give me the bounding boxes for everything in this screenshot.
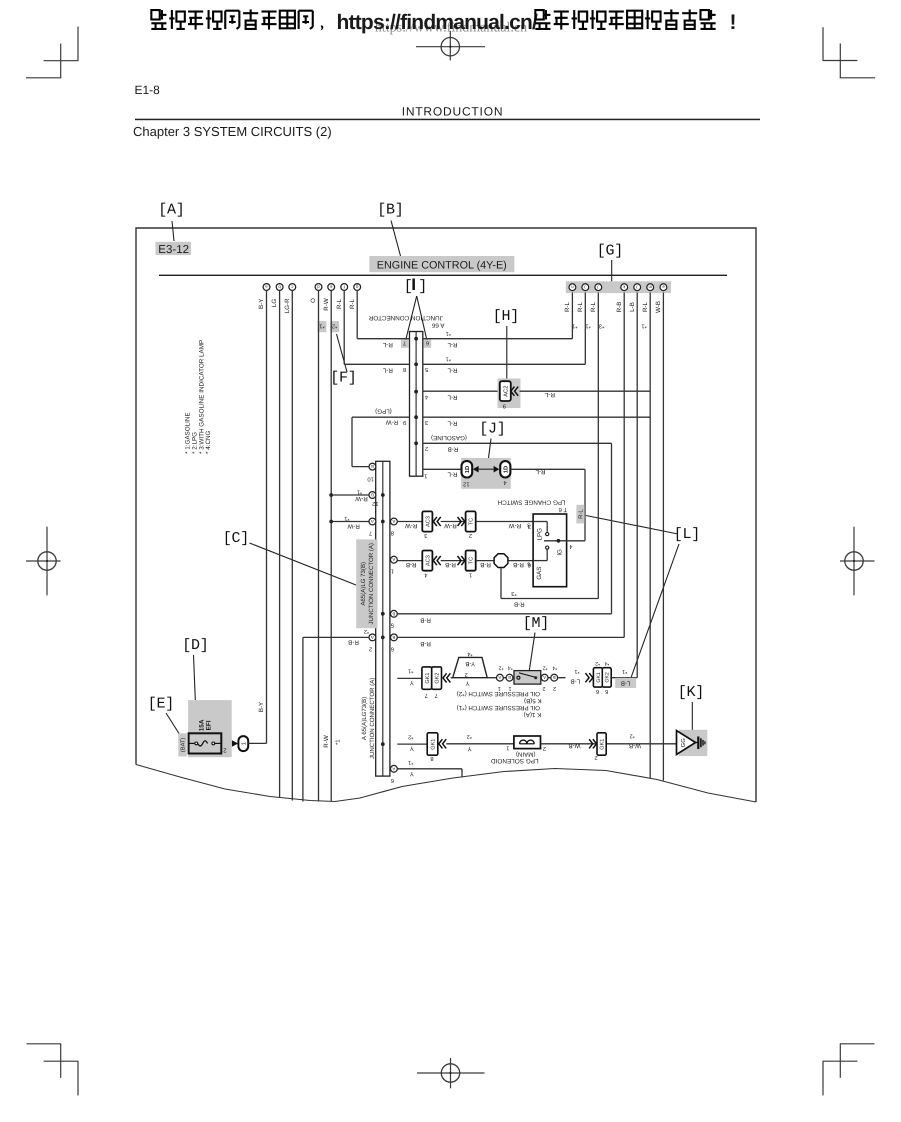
svg-text:IG: IG bbox=[557, 549, 564, 556]
svg-text:[J]: [J] bbox=[479, 421, 505, 438]
svg-text:B: B bbox=[392, 611, 395, 616]
terminal a bbox=[263, 284, 270, 291]
pointer line for [J] bbox=[489, 439, 492, 459]
svg-text:[L]: [L] bbox=[674, 526, 700, 543]
svg-text:R-W: R-W bbox=[509, 522, 522, 529]
A65 upper label gray bbox=[356, 539, 377, 628]
svg-text:R-W: R-W bbox=[355, 495, 368, 502]
connector 1D right bbox=[500, 461, 510, 477]
wire fuse to B-Y bbox=[248, 742, 266, 744]
inner top rule bbox=[159, 275, 727, 276]
svg-text:(MAIN): (MAIN) bbox=[516, 751, 536, 758]
svg-text:W-B: W-B bbox=[569, 742, 581, 749]
A65 pin 2A bbox=[369, 634, 376, 641]
svg-text:R-L: R-L bbox=[578, 509, 585, 519]
svg-text:*2: *2 bbox=[364, 628, 369, 634]
svg-text:W-B: W-B bbox=[655, 301, 662, 313]
connector GK2 bbox=[432, 667, 442, 689]
svg-text:6: 6 bbox=[605, 688, 608, 695]
svg-text:7: 7 bbox=[369, 530, 372, 536]
svg-text:GK1: GK1 bbox=[431, 739, 437, 750]
svg-text:ENGINE CONTROL (4Y-E): ENGINE CONTROL (4Y-E) bbox=[377, 260, 507, 272]
junction dot A66 bbox=[414, 337, 418, 341]
wire R-B ecu vertical bbox=[623, 293, 625, 638]
svg-text:1: 1 bbox=[506, 745, 509, 751]
wire R-B drop bbox=[302, 637, 304, 801]
svg-text:GK1: GK1 bbox=[425, 673, 431, 684]
svg-text:*1: *1 bbox=[408, 759, 413, 765]
svg-text:*1: *1 bbox=[357, 489, 362, 495]
svg-text:6: 6 bbox=[426, 340, 429, 346]
svg-text:O: O bbox=[310, 298, 317, 303]
svg-text:8: 8 bbox=[430, 755, 433, 762]
svg-text:W-B: W-B bbox=[629, 742, 641, 749]
A65 pin 12B bbox=[369, 492, 376, 499]
svg-text:L-B: L-B bbox=[621, 680, 631, 687]
wire lamp to switch pin6 bbox=[508, 560, 533, 562]
svg-text:* 4:CNG: * 4:CNG bbox=[205, 430, 212, 454]
svg-text:R-B: R-B bbox=[513, 561, 524, 568]
svg-text:3: 3 bbox=[425, 419, 428, 426]
wire R-L ecu2 vertical bbox=[584, 293, 586, 365]
terminal e bbox=[328, 284, 335, 291]
svg-text:R-L: R-L bbox=[447, 470, 458, 477]
svg-text:B-Y: B-Y bbox=[258, 299, 265, 309]
svg-text:8: 8 bbox=[391, 530, 394, 537]
svg-text:8: 8 bbox=[403, 366, 406, 373]
svg-text:6: 6 bbox=[528, 562, 531, 569]
svg-text:12: 12 bbox=[463, 480, 469, 487]
indicator lamp (octagon) bbox=[494, 554, 508, 568]
connector AC3 pin 4 bbox=[422, 551, 432, 571]
svg-text:]: ] bbox=[418, 278, 427, 295]
pointer line for [M] bbox=[529, 633, 535, 671]
svg-text:2: 2 bbox=[553, 685, 556, 691]
wire row2 to lamp bbox=[476, 560, 494, 562]
registration mark top-left bbox=[77, 27, 79, 61]
svg-text:10: 10 bbox=[367, 475, 373, 482]
svg-text:5: 5 bbox=[425, 366, 428, 372]
svg-text:4: 4 bbox=[424, 393, 428, 399]
pointer line for [C] bbox=[250, 543, 357, 585]
svg-text:3: 3 bbox=[528, 523, 531, 530]
wire R-W to 12B bbox=[331, 494, 369, 496]
connector GK1 ground side bbox=[597, 733, 606, 755]
svg-text:LPG SOLENOID: LPG SOLENOID bbox=[491, 757, 539, 764]
svg-text:*1: *1 bbox=[622, 668, 627, 674]
switch pin3 internal bbox=[533, 521, 547, 523]
svg-text:*2: *2 bbox=[408, 734, 413, 740]
tag *2 gray bbox=[330, 321, 339, 332]
svg-text:[M]: [M] bbox=[523, 615, 549, 632]
svg-text:(GASOLINE): (GASOLINE) bbox=[431, 434, 467, 441]
svg-text:L-B: L-B bbox=[629, 302, 636, 312]
svg-text:GK2: GK2 bbox=[435, 673, 441, 684]
junction dot A65 bbox=[381, 742, 385, 746]
svg-text:R-W: R-W bbox=[323, 735, 330, 748]
svg-text:R-W: R-W bbox=[386, 419, 399, 426]
pointer line for [F] bbox=[337, 334, 348, 372]
wire 6A right bbox=[397, 768, 462, 770]
junction dot A65 bbox=[381, 520, 385, 524]
svg-text:OIL PRESSURE SWITCH (*1): OIL PRESSURE SWITCH (*1) bbox=[457, 704, 540, 711]
svg-text:(LPG): (LPG) bbox=[375, 408, 392, 415]
svg-text:9: 9 bbox=[403, 419, 406, 426]
svg-text:1D: 1D bbox=[465, 466, 471, 473]
registration target bottom-center bbox=[441, 1064, 459, 1082]
tag *1 gray bbox=[318, 321, 327, 332]
svg-text:Y: Y bbox=[465, 679, 469, 686]
svg-text:GG: GG bbox=[680, 738, 687, 748]
fuse 15A EFI box bbox=[189, 733, 222, 753]
LPG solenoid coil bbox=[514, 736, 541, 749]
svg-text:m: m bbox=[648, 285, 652, 290]
wire A66 row1 left bbox=[357, 338, 409, 340]
svg-text:T 6: T 6 bbox=[558, 506, 567, 513]
ECU terminal n bbox=[569, 284, 576, 291]
pointer line for [G] bbox=[611, 260, 613, 281]
registration mark top-right bbox=[822, 27, 824, 60]
svg-text:INTRODUCTION: INTRODUCTION bbox=[402, 105, 504, 119]
svg-text:R-W: R-W bbox=[323, 298, 330, 311]
svg-text:A: A bbox=[392, 557, 395, 562]
E3-12 reference box bbox=[156, 242, 192, 255]
connector pair 1D gray panel bbox=[461, 458, 511, 489]
terminal d bbox=[315, 284, 322, 291]
svg-text:AC3: AC3 bbox=[425, 516, 431, 527]
svg-text:3: 3 bbox=[424, 532, 427, 539]
lamp bottom loop bbox=[500, 568, 502, 598]
junction dot A65 bbox=[381, 612, 385, 616]
diagram outer border with torn-edge bottom bbox=[136, 228, 756, 802]
svg-text:R-B: R-B bbox=[348, 639, 359, 646]
svg-text:B: B bbox=[508, 675, 511, 680]
pointer line for [A] bbox=[172, 221, 174, 241]
wire R-W to 7A bbox=[331, 521, 369, 523]
mating arrows bbox=[473, 466, 479, 473]
svg-text:7: 7 bbox=[403, 340, 406, 346]
svg-text:B: B bbox=[392, 635, 395, 640]
svg-text:https://findmanual.cn/: https://findmanual.cn/ bbox=[337, 11, 539, 34]
wire R-W vertical bbox=[330, 290, 332, 801]
ECU terminal e bbox=[660, 284, 667, 291]
connector GK1 bbox=[422, 667, 432, 689]
wire to pin10 bbox=[352, 466, 369, 468]
wire A65 2B to GK1 bbox=[397, 743, 427, 745]
wire solenoid to GG bbox=[541, 743, 677, 745]
svg-text:J: J bbox=[597, 285, 599, 290]
svg-text:[H]: [H] bbox=[493, 308, 519, 325]
svg-text:R-B: R-B bbox=[445, 561, 456, 568]
terminal b bbox=[276, 284, 283, 291]
wire A65 1B to GK pair bbox=[397, 677, 422, 679]
svg-text:R-B: R-B bbox=[406, 561, 417, 568]
svg-text:JUNCTION CONNECTOR (A): JUNCTION CONNECTOR (A) bbox=[369, 678, 376, 759]
svg-text:LG: LG bbox=[271, 299, 278, 307]
oil pressure sender plug (trapezoid) bbox=[453, 657, 488, 677]
connector GK1 right bbox=[593, 668, 602, 687]
wire R-L ecu3 vertical (IG feed) bbox=[597, 293, 599, 599]
terminal c bbox=[289, 284, 296, 291]
svg-text:*4: *4 bbox=[508, 665, 513, 671]
registration mark bottom-left bbox=[60, 1044, 62, 1078]
svg-text:E1-8: E1-8 bbox=[135, 83, 161, 97]
wire 1D to R-L drop bbox=[510, 468, 585, 470]
A65 pin 6A bbox=[391, 765, 398, 772]
svg-text:[K]: [K] bbox=[678, 684, 704, 701]
svg-text:AC2: AC2 bbox=[502, 386, 509, 397]
svg-text:R-B: R-B bbox=[514, 601, 525, 608]
svg-text:R-W: R-W bbox=[347, 522, 360, 529]
svg-text:Y: Y bbox=[410, 745, 414, 752]
svg-text:7: 7 bbox=[425, 692, 428, 698]
svg-text:R-L: R-L bbox=[577, 301, 584, 312]
svg-text:1: 1 bbox=[391, 568, 394, 574]
wire row y=521.5 bbox=[397, 521, 422, 523]
pin 6 gray bbox=[424, 340, 432, 348]
A65 pin 1A bbox=[391, 556, 398, 563]
svg-text:[E]: [E] bbox=[148, 696, 174, 713]
svg-text:A: A bbox=[371, 519, 374, 524]
wire to solenoid bbox=[446, 743, 514, 745]
svg-text:JUNCTION CONNECTOR: JUNCTION CONNECTOR bbox=[368, 314, 442, 321]
banner chinese headline (drawn glyphs) bbox=[151, 10, 159, 19]
svg-text:*1: *1 bbox=[641, 323, 646, 329]
ground point GG [K] bbox=[679, 730, 707, 756]
pointer lines for [L] bbox=[586, 516, 678, 535]
svg-text:[C]: [C] bbox=[223, 530, 249, 547]
pointer line for [D] bbox=[194, 655, 196, 700]
connector TC pin 1 bbox=[466, 551, 476, 571]
wire A66 row1 right bbox=[423, 338, 573, 340]
svg-text:1: 1 bbox=[469, 571, 472, 577]
svg-text:15A: 15A bbox=[198, 719, 205, 731]
fuse panel gray bbox=[188, 700, 232, 757]
svg-text:L-B: L-B bbox=[570, 678, 580, 685]
A65 pin 8A bbox=[391, 518, 398, 525]
terminal A2 bbox=[541, 674, 548, 681]
svg-text:Chapter 3 SYSTEM CIRCUITS (2): Chapter 3 SYSTEM CIRCUITS (2) bbox=[133, 124, 332, 139]
svg-text:2: 2 bbox=[469, 532, 472, 539]
svg-text:c: c bbox=[291, 285, 293, 290]
registration target top-center bbox=[441, 38, 459, 56]
junction dot A65 bbox=[381, 636, 385, 640]
wire A66 row5 right bbox=[423, 442, 612, 444]
wire to sensor plug bbox=[451, 677, 453, 679]
ECU terminal J bbox=[634, 284, 641, 291]
wire row1 to switch pin3 bbox=[476, 521, 533, 523]
wire 6B right bbox=[397, 636, 624, 638]
switch pin6 internal bbox=[533, 560, 547, 562]
svg-text:B: B bbox=[371, 493, 374, 498]
svg-text:R-L: R-L bbox=[447, 341, 458, 348]
svg-text:E3-12: E3-12 bbox=[158, 244, 189, 256]
svg-text:EFI: EFI bbox=[206, 720, 213, 730]
svg-text:4: 4 bbox=[569, 543, 573, 549]
svg-text:R-B: R-B bbox=[448, 445, 459, 452]
svg-text:B: B bbox=[371, 464, 374, 469]
svg-text:J: J bbox=[584, 285, 586, 290]
svg-text:*2: *2 bbox=[543, 665, 548, 671]
svg-text:A65(A)LG 73(B): A65(A)LG 73(B) bbox=[360, 562, 367, 606]
fuse element bbox=[195, 742, 198, 745]
wire W-B ecu vertical bbox=[662, 293, 664, 781]
oil pressure switch wire bbox=[487, 677, 565, 679]
svg-text:*1: *1 bbox=[446, 355, 451, 361]
wire A66 row2 right bbox=[423, 363, 586, 365]
wire row5 drop bbox=[611, 443, 613, 614]
pointer line for [K] bbox=[691, 702, 693, 730]
svg-text:Y: Y bbox=[410, 679, 414, 686]
junction dot A66 bbox=[414, 390, 418, 394]
svg-text:R-L: R-L bbox=[336, 298, 343, 309]
svg-text:B-Y: B-Y bbox=[258, 702, 265, 712]
svg-text:B: B bbox=[553, 675, 556, 680]
svg-text:6: 6 bbox=[391, 645, 394, 652]
svg-text:5: 5 bbox=[391, 622, 394, 628]
svg-text:K 1(A): K 1(A) bbox=[524, 711, 542, 718]
connector GK2 right bbox=[602, 668, 611, 687]
junction connector A66 body bbox=[410, 332, 423, 477]
terminal A1 bbox=[497, 674, 504, 681]
svg-text:Y: Y bbox=[410, 770, 414, 777]
svg-text:JUNCTION CONNECTOR (A): JUNCTION CONNECTOR (A) bbox=[368, 543, 375, 624]
wire 2A left bbox=[303, 636, 369, 638]
arrow into connector bbox=[232, 740, 238, 746]
svg-text:*1: *1 bbox=[574, 668, 579, 674]
pin 7 gray bbox=[401, 340, 409, 348]
svg-text:*2: *2 bbox=[498, 665, 503, 671]
connector AC2 bbox=[498, 379, 521, 409]
svg-text:[F]: [F] bbox=[330, 370, 356, 387]
svg-text:R-L: R-L bbox=[382, 341, 393, 348]
svg-text:A: A bbox=[392, 766, 395, 771]
wire row y=560.6 bbox=[397, 560, 422, 562]
svg-text:R-L: R-L bbox=[544, 391, 555, 398]
svg-text:A 66: A 66 bbox=[431, 322, 444, 329]
svg-text:12: 12 bbox=[372, 500, 378, 507]
wire A66 pin1 right bbox=[423, 468, 461, 470]
svg-text:R-B: R-B bbox=[420, 640, 431, 647]
ECU terminal m bbox=[647, 284, 654, 291]
svg-text:[: [ bbox=[404, 278, 413, 295]
svg-text:2: 2 bbox=[465, 671, 468, 678]
svg-text:R-L: R-L bbox=[382, 366, 393, 373]
svg-text:A: A bbox=[392, 519, 395, 524]
svg-text:[A]: [A] bbox=[158, 202, 184, 219]
svg-text:4: 4 bbox=[424, 571, 428, 577]
(BAT) tag bbox=[178, 733, 186, 756]
connector TC pin 2 bbox=[466, 511, 476, 531]
ENGINE CONTROL title box bbox=[369, 256, 514, 272]
connector GK1 solenoid bbox=[427, 733, 438, 755]
svg-text:TC: TC bbox=[469, 518, 475, 525]
junction connector A65 body bbox=[376, 461, 390, 776]
svg-text:1D: 1D bbox=[503, 466, 509, 473]
wire L-B ecu vertical bbox=[636, 293, 638, 678]
svg-text:*4: *4 bbox=[552, 665, 557, 671]
terminal f bbox=[341, 284, 348, 291]
svg-text:*3: *3 bbox=[599, 323, 604, 330]
A65 pin 5B bbox=[391, 610, 398, 617]
registration target right-middle bbox=[845, 552, 863, 570]
A65 pin 7A bbox=[369, 518, 376, 525]
svg-text:GK2: GK2 bbox=[605, 672, 611, 682]
connector AC3 pin 3 bbox=[422, 511, 432, 531]
svg-text:*2: *2 bbox=[467, 733, 472, 739]
svg-text:R-B: R-B bbox=[616, 302, 623, 313]
svg-text:(BAT): (BAT) bbox=[180, 738, 187, 753]
wire R-L ecu1 vertical bbox=[571, 293, 573, 339]
wire A66 row4 right bbox=[423, 416, 650, 418]
pointer line for [E] bbox=[166, 713, 179, 734]
svg-text:OIL PRESSURE SWITCH (*2): OIL PRESSURE SWITCH (*2) bbox=[457, 690, 540, 697]
svg-text:6: 6 bbox=[391, 777, 394, 784]
terminal B2 bbox=[551, 674, 558, 681]
svg-text:[G]: [G] bbox=[597, 243, 623, 260]
svg-text:R-L: R-L bbox=[535, 468, 546, 475]
svg-text:*2: *2 bbox=[595, 660, 600, 666]
svg-text:A: A bbox=[498, 675, 501, 680]
svg-text:R-L: R-L bbox=[590, 301, 597, 312]
svg-text:6: 6 bbox=[596, 688, 599, 695]
svg-text:GAS: GAS bbox=[536, 567, 543, 580]
svg-text:*1: *1 bbox=[319, 322, 324, 328]
svg-text:LPG: LPG bbox=[536, 528, 543, 541]
junction dot R-W/7A bbox=[329, 520, 333, 524]
svg-text:R-L: R-L bbox=[642, 301, 649, 312]
svg-text:R-B: R-B bbox=[420, 617, 431, 624]
svg-text:*1: *1 bbox=[335, 740, 341, 745]
svg-text:*1: *1 bbox=[408, 667, 413, 673]
LPG change switch box bbox=[533, 514, 567, 587]
connector 1D left bbox=[462, 461, 473, 477]
svg-text:R-W: R-W bbox=[405, 522, 418, 529]
terminal B1 bbox=[506, 674, 513, 681]
svg-text:R-L: R-L bbox=[564, 301, 571, 312]
A65 pin 6B bbox=[391, 634, 398, 641]
wire R-L g vertical bbox=[356, 290, 358, 338]
svg-text:1: 1 bbox=[424, 472, 427, 478]
ECU terminal J bbox=[582, 284, 589, 291]
ECU terminal k bbox=[621, 284, 628, 291]
junction dot A66 bbox=[414, 362, 418, 366]
wire R-L ecu6 vertical bbox=[649, 293, 651, 779]
svg-text:2: 2 bbox=[543, 745, 546, 752]
svg-text:7: 7 bbox=[435, 692, 438, 698]
registration target left-middle bbox=[38, 552, 56, 570]
wire A66 row2 left bbox=[344, 363, 409, 365]
svg-text:[D]: [D] bbox=[182, 637, 208, 654]
svg-text:TC: TC bbox=[469, 557, 475, 564]
svg-text:A 65(A)LG73(B): A 65(A)LG73(B) bbox=[361, 697, 368, 740]
svg-text:Y: Y bbox=[468, 745, 472, 752]
wire LG vertical bbox=[279, 290, 281, 797]
svg-text:LPG CHANGE SWITCH: LPG CHANGE SWITCH bbox=[497, 498, 565, 505]
ECU connector bar G bbox=[566, 281, 671, 293]
svg-text:*2: *2 bbox=[630, 733, 635, 739]
R-L gray tag bbox=[576, 505, 584, 524]
svg-text:GK1: GK1 bbox=[600, 739, 606, 750]
svg-text:*1: *1 bbox=[585, 323, 590, 329]
ECU terminal J bbox=[595, 284, 602, 291]
svg-text:R-L: R-L bbox=[447, 394, 458, 401]
wire O vertical bbox=[318, 290, 320, 801]
svg-text:GK1: GK1 bbox=[596, 672, 602, 682]
svg-text:!: ! bbox=[730, 11, 737, 34]
svg-text:2: 2 bbox=[425, 445, 428, 452]
svg-text:*2: *2 bbox=[332, 322, 337, 329]
